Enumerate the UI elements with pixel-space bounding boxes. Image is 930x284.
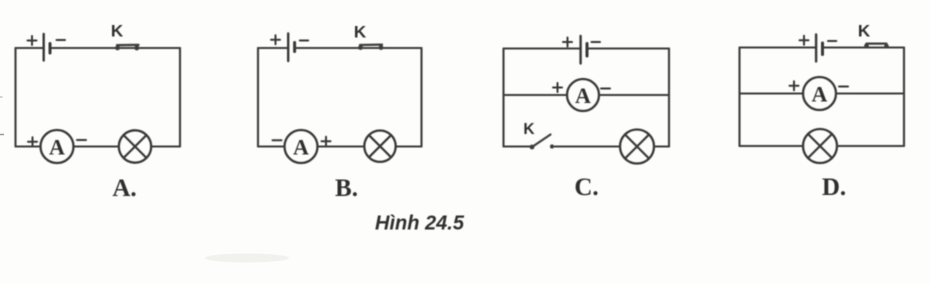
label: ammeter C plus sign xyxy=(553,83,562,92)
ammeter A (circuit B) xyxy=(285,130,318,163)
label: battery B plus sign xyxy=(271,35,280,44)
svg-text:K: K xyxy=(111,21,124,40)
switch K (closed) circuit A xyxy=(115,45,139,50)
wire: B bottom rail right segment xyxy=(396,145,422,147)
label: ammeter B plus sign xyxy=(322,137,331,146)
wire: A bottom rail left segment xyxy=(16,145,41,147)
lamp (bulb) circuit B xyxy=(364,131,395,162)
lamp (bulb) circuit C xyxy=(620,130,654,164)
wire: C bottom rail left segment xyxy=(504,145,530,147)
wire: C top rail left segment xyxy=(504,47,580,49)
label: ammeter C minus sign xyxy=(601,88,610,90)
battery (cell) D xyxy=(816,35,822,62)
switch K (open) circuit C xyxy=(530,135,555,150)
wire: B top rail left segment xyxy=(258,47,287,49)
lamp (bulb) circuit D xyxy=(803,129,837,163)
svg-text:B.: B. xyxy=(335,175,358,202)
wire: D left vertical xyxy=(738,48,740,147)
wire: D middle rail left segment xyxy=(740,92,804,94)
label: battery A plus sign xyxy=(28,36,37,45)
lamp (bulb) circuit A xyxy=(119,130,151,162)
svg-text:K: K xyxy=(354,22,367,41)
label: battery D minus sign xyxy=(828,40,836,42)
svg-text:K: K xyxy=(523,121,535,138)
wire: A left vertical xyxy=(14,48,16,147)
svg-text:A: A xyxy=(575,83,591,108)
ammeter A (circuit C) xyxy=(567,79,599,111)
wire: D bottom rail right segment xyxy=(837,145,904,147)
label: battery C plus sign xyxy=(563,38,572,47)
wire: A bottom rail right segment xyxy=(151,145,180,147)
wire: C bottom rail middle segment xyxy=(555,145,620,147)
svg-text:A: A xyxy=(812,81,828,106)
wire: D bottom rail left segment xyxy=(740,145,804,147)
wire: A right vertical xyxy=(179,48,181,147)
wire: C top rail right segment xyxy=(589,47,670,49)
wire: B right vertical xyxy=(420,48,422,147)
svg-text:C.: C. xyxy=(574,174,598,201)
wire: A top rail right segment xyxy=(52,47,181,49)
label: battery A minus sign xyxy=(57,39,66,41)
wire: A bottom rail middle segment xyxy=(74,145,119,147)
wire: C middle rail left segment xyxy=(504,94,568,96)
label: ammeter A plus sign xyxy=(28,137,37,146)
label: battery C minus sign xyxy=(592,41,601,43)
label: battery D plus sign xyxy=(800,36,809,45)
svg-text:Hình 24.5: Hình 24.5 xyxy=(375,213,465,235)
wire: B left vertical xyxy=(257,48,259,147)
svg-text:A: A xyxy=(293,134,309,159)
wire: C left vertical xyxy=(502,49,504,147)
label: ammeter D plus sign xyxy=(790,81,799,90)
svg-text:D.: D. xyxy=(822,174,846,201)
wire: D middle rail right segment xyxy=(836,92,904,94)
svg-text:K: K xyxy=(858,22,871,41)
label: battery B minus sign xyxy=(300,40,308,42)
label: ammeter A minus sign xyxy=(77,139,86,141)
svg-text:A.: A. xyxy=(112,175,136,202)
wire: D top rail left segment xyxy=(740,46,815,48)
label: ammeter D minus sign xyxy=(839,86,848,88)
switch K (closed) circuit D xyxy=(864,44,889,49)
wire: C middle rail right segment xyxy=(599,94,669,96)
switch K (closed) circuit B xyxy=(358,45,383,50)
battery (cell) B xyxy=(288,34,294,62)
wire: D top rail right segment xyxy=(824,46,904,48)
wire: D right vertical xyxy=(903,48,905,147)
wire: B bottom rail left segment xyxy=(258,145,285,147)
wire: C right vertical xyxy=(668,49,670,147)
label: ammeter B minus sign xyxy=(273,139,282,141)
wire: C bottom rail right segment xyxy=(654,145,669,147)
ammeter A (circuit A) xyxy=(41,130,74,163)
battery (cell) C xyxy=(581,36,587,64)
battery (cell) A xyxy=(44,34,50,61)
ammeter A (circuit D) xyxy=(803,77,836,110)
wire: B bottom rail middle segment xyxy=(318,145,365,147)
wire: A top rail left segment xyxy=(16,47,43,49)
wire: B top rail right segment xyxy=(296,47,421,49)
svg-text:A: A xyxy=(49,134,65,159)
